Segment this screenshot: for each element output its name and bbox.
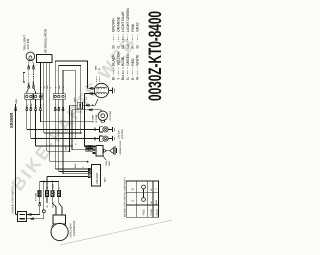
headlight wire 1: [51, 182, 53, 191]
svg-text:RED: RED: [131, 58, 135, 66]
mesh wire bulb2 feed: [30, 110, 32, 139]
harness loop middle: [59, 66, 81, 132]
svg-text:Bl/W: Bl/W: [74, 164, 77, 168]
svg-text:G: G: [26, 104, 29, 106]
inline unit: [77, 102, 82, 108]
engine stop switch: [18, 212, 27, 222]
headlight: [51, 223, 68, 240]
wire: [33, 69, 35, 85]
wire to connector: [27, 88, 29, 94]
alternator: [94, 83, 108, 97]
svg-text:Bu/W: Bu/W: [52, 201, 55, 207]
headlight wire 2: [58, 182, 60, 191]
watermark diagonal text: [7, 32, 140, 195]
wire to engine stop switch with G tube: [39, 182, 41, 202]
wire to headlight: [59, 197, 62, 216]
svg-text:Bl/W: Bl/W: [155, 200, 158, 204]
svg-text:SPARK PLUG: SPARK PLUG: [119, 140, 122, 154]
wires below connectors: [26, 99, 28, 107]
svg-text:PULSER: PULSER: [109, 111, 112, 121]
continuity table: [126, 181, 158, 217]
tail wire joint: [28, 65, 30, 67]
svg-text:Lg: Lg: [126, 45, 130, 49]
clamp bracket marker: [23, 73, 25, 83]
spark plug: [104, 149, 107, 152]
tail light bulb: [26, 52, 35, 61]
svg-text:Lb: Lb: [121, 45, 125, 49]
mesh bottom bus: [40, 181, 59, 183]
svg-text:G TUBE: G TUBE: [91, 114, 94, 122]
svg-text:(METER): (METER): [121, 129, 124, 139]
wire from regulator: [43, 63, 45, 100]
svg-text:LIGHT BLUE: LIGHT BLUE: [121, 11, 125, 32]
spare inline connector: [45, 190, 48, 196]
wire to headlight: [52, 197, 56, 216]
svg-text:COLOR: COLOR: [156, 209, 159, 217]
svg-text:XR250R: XR250R: [9, 112, 14, 128]
svg-text:12V35/36.5W: 12V35/36.5W: [73, 220, 76, 236]
svg-text:Bl: Bl: [112, 77, 116, 80]
svg-text:Bu/Y: Bu/Y: [108, 160, 111, 165]
harness loop outer: [55, 61, 87, 94]
tail light wire 2: [32, 60, 34, 66]
svg-text:CDI UNIT: CDI UNIT: [96, 172, 99, 184]
mesh wire mid: [43, 99, 45, 133]
svg-text:Bu/W: Bu/W: [52, 183, 55, 189]
ground eyelet: [42, 210, 45, 213]
wire: [28, 69, 30, 85]
table contact symbol: [142, 185, 146, 189]
svg-text:12V 3W: 12V 3W: [26, 39, 30, 50]
AC regulator box: [37, 55, 53, 63]
wire down from chain: [69, 105, 71, 151]
tail wire joint 2: [28, 84, 30, 86]
mesh wire upper: [39, 110, 41, 122]
svg-text:BLUE: BLUE: [121, 56, 125, 66]
svg-text:G: G: [49, 87, 52, 89]
watermark swoosh line: [60, 220, 172, 245]
mesh wire bulb1 feed: [26, 110, 28, 129]
wire to connector: [34, 88, 36, 94]
alternator windings: [96, 87, 106, 88]
mesh wire CDI pin4: [47, 176, 88, 178]
connector 2P: [34, 94, 43, 100]
stop switch wires: [27, 214, 40, 216]
chain lower pulser: [72, 110, 103, 112]
chain upper exciter: [70, 104, 78, 106]
connector 3P harness: [53, 94, 65, 100]
svg-text:GRAY: GRAY: [136, 21, 140, 31]
headlight base: [53, 215, 66, 224]
mesh harness to CDI: [54, 99, 56, 169]
svg-text:O: O: [116, 46, 120, 49]
svg-text:AC REGULATOR: AC REGULATOR: [44, 28, 48, 53]
svg-text:G TUBE: G TUBE: [34, 192, 37, 201]
indicator bulb: [103, 136, 108, 141]
tail wire joint 2: [33, 84, 35, 86]
svg-text:PUSH: PUSH: [150, 209, 153, 216]
CDI unit: [92, 164, 101, 186]
svg-text:G: G: [126, 77, 130, 80]
CDI pins: [88, 168, 91, 170]
svg-text:G: G: [132, 200, 135, 202]
svg-text:WHITE: WHITE: [136, 54, 140, 66]
alternator ground: [109, 90, 113, 92]
svg-text:ENGINE STOP SWITCH: ENGINE STOP SWITCH: [11, 186, 14, 214]
tail light wire 1: [28, 61, 31, 66]
svg-text:LIGHT GREEN: LIGHT GREEN: [126, 8, 130, 32]
mesh wire to exciter chain: [46, 99, 48, 151]
svg-text:FREE: FREE: [142, 209, 145, 216]
svg-text:Bl/W: Bl/W: [65, 146, 68, 150]
svg-text:Bu: Bu: [121, 76, 125, 80]
svg-text:YELLOW: YELLOW: [116, 51, 120, 66]
tail wire joint: [33, 65, 35, 67]
mesh wire to pulser chain: [35, 110, 37, 146]
coil feed inline connectors: [84, 146, 93, 148]
svg-text:Bu/Y: Bu/Y: [104, 177, 107, 182]
alternator left terminals: [88, 87, 95, 89]
ignition coil: [96, 146, 103, 156]
ground eyelet wire: [43, 182, 45, 210]
wire down from chain: [71, 110, 73, 150]
connector 2P tail: [25, 94, 33, 100]
wire from regulator: [49, 63, 51, 100]
exciter to coil wire: [83, 94, 85, 147]
svg-text:GREEN: GREEN: [126, 53, 130, 66]
svg-text:BLACK: BLACK: [112, 54, 116, 66]
pulse generator: [98, 111, 107, 120]
mesh wire long: [49, 99, 51, 161]
svg-text:PINK: PINK: [131, 23, 135, 32]
coil wire callout: [103, 156, 106, 160]
wire from regulator: [46, 63, 48, 100]
svg-text:BROWN: BROWN: [112, 18, 116, 32]
svg-text:E: E: [132, 188, 135, 190]
alternator feed dashed stubs: [95, 77, 97, 84]
svg-text:0030Z-KT0-8400: 0030Z-KT0-8400: [145, 11, 165, 101]
harness loop inner: [63, 70, 75, 138]
svg-text:G: G: [58, 187, 61, 189]
wire left edge: [15, 104, 17, 215]
indicator bulb: [103, 127, 108, 132]
harness leg joints: [54, 107, 56, 109]
svg-text:ORANGE: ORANGE: [116, 16, 120, 32]
wire from regulator: [39, 63, 41, 100]
inline connector: [38, 190, 41, 196]
